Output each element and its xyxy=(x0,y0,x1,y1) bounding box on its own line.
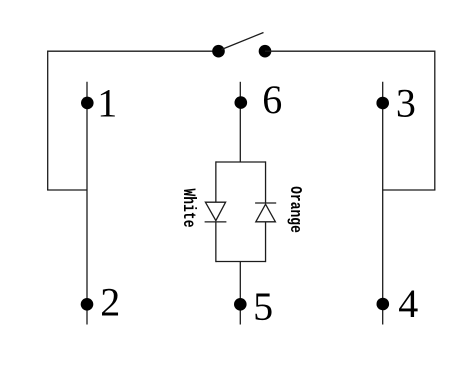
pin label 3 xyxy=(396,81,416,126)
node 5 junction dot xyxy=(234,298,247,311)
svg-text:4: 4 xyxy=(398,281,418,326)
wire right branch upper (box right side) xyxy=(265,161,267,203)
wire pin1 to pin2 vertical xyxy=(86,82,88,325)
label Orange xyxy=(285,186,303,233)
wire left loop bottom horizontal xyxy=(47,189,87,191)
svg-text:1: 1 xyxy=(97,81,117,126)
wire pin5 vertical lower xyxy=(239,262,241,325)
pin label 1 xyxy=(97,81,117,126)
wire pin6 vertical upper xyxy=(239,82,241,162)
wire left branch upper (box left side) xyxy=(215,161,217,202)
wire lamp box bottom horizontal xyxy=(216,261,266,263)
pin label 2 xyxy=(100,279,120,324)
switch SW1 right contact dot xyxy=(259,45,272,58)
diode D1 White (pointing down) xyxy=(205,202,227,222)
pin label 5 xyxy=(253,284,273,329)
node 3 junction dot xyxy=(376,97,389,110)
switch SW1 arm xyxy=(222,33,264,50)
node 6 junction dot xyxy=(235,96,248,109)
node 4 junction dot xyxy=(377,298,390,311)
svg-text:5: 5 xyxy=(253,284,273,329)
svg-text:3: 3 xyxy=(396,81,416,126)
label White xyxy=(178,189,198,228)
wire right branch lower (box right side) xyxy=(265,222,267,262)
svg-text:2: 2 xyxy=(100,279,120,324)
wire pin3 to pin4 vertical xyxy=(382,82,384,325)
wire right loop vertical xyxy=(434,51,436,190)
diode D2 Orange (pointing up) xyxy=(255,203,276,222)
svg-text:Orange: Orange xyxy=(285,186,303,233)
svg-text:White: White xyxy=(178,189,198,228)
switch SW1 left contact dot xyxy=(212,45,225,58)
wire left loop vertical xyxy=(47,51,49,190)
pin label 4 xyxy=(398,281,418,326)
wire lamp box top horizontal xyxy=(216,161,266,163)
wire left branch lower (box left side) xyxy=(215,222,217,262)
svg-text:6: 6 xyxy=(262,77,282,122)
node 2 junction dot xyxy=(81,298,94,311)
pin label 6 xyxy=(262,77,282,122)
wire top rail right segment xyxy=(265,50,435,52)
wire right loop bottom horizontal xyxy=(383,189,436,191)
node 1 junction dot xyxy=(81,97,94,110)
wire top rail left segment xyxy=(48,50,219,52)
